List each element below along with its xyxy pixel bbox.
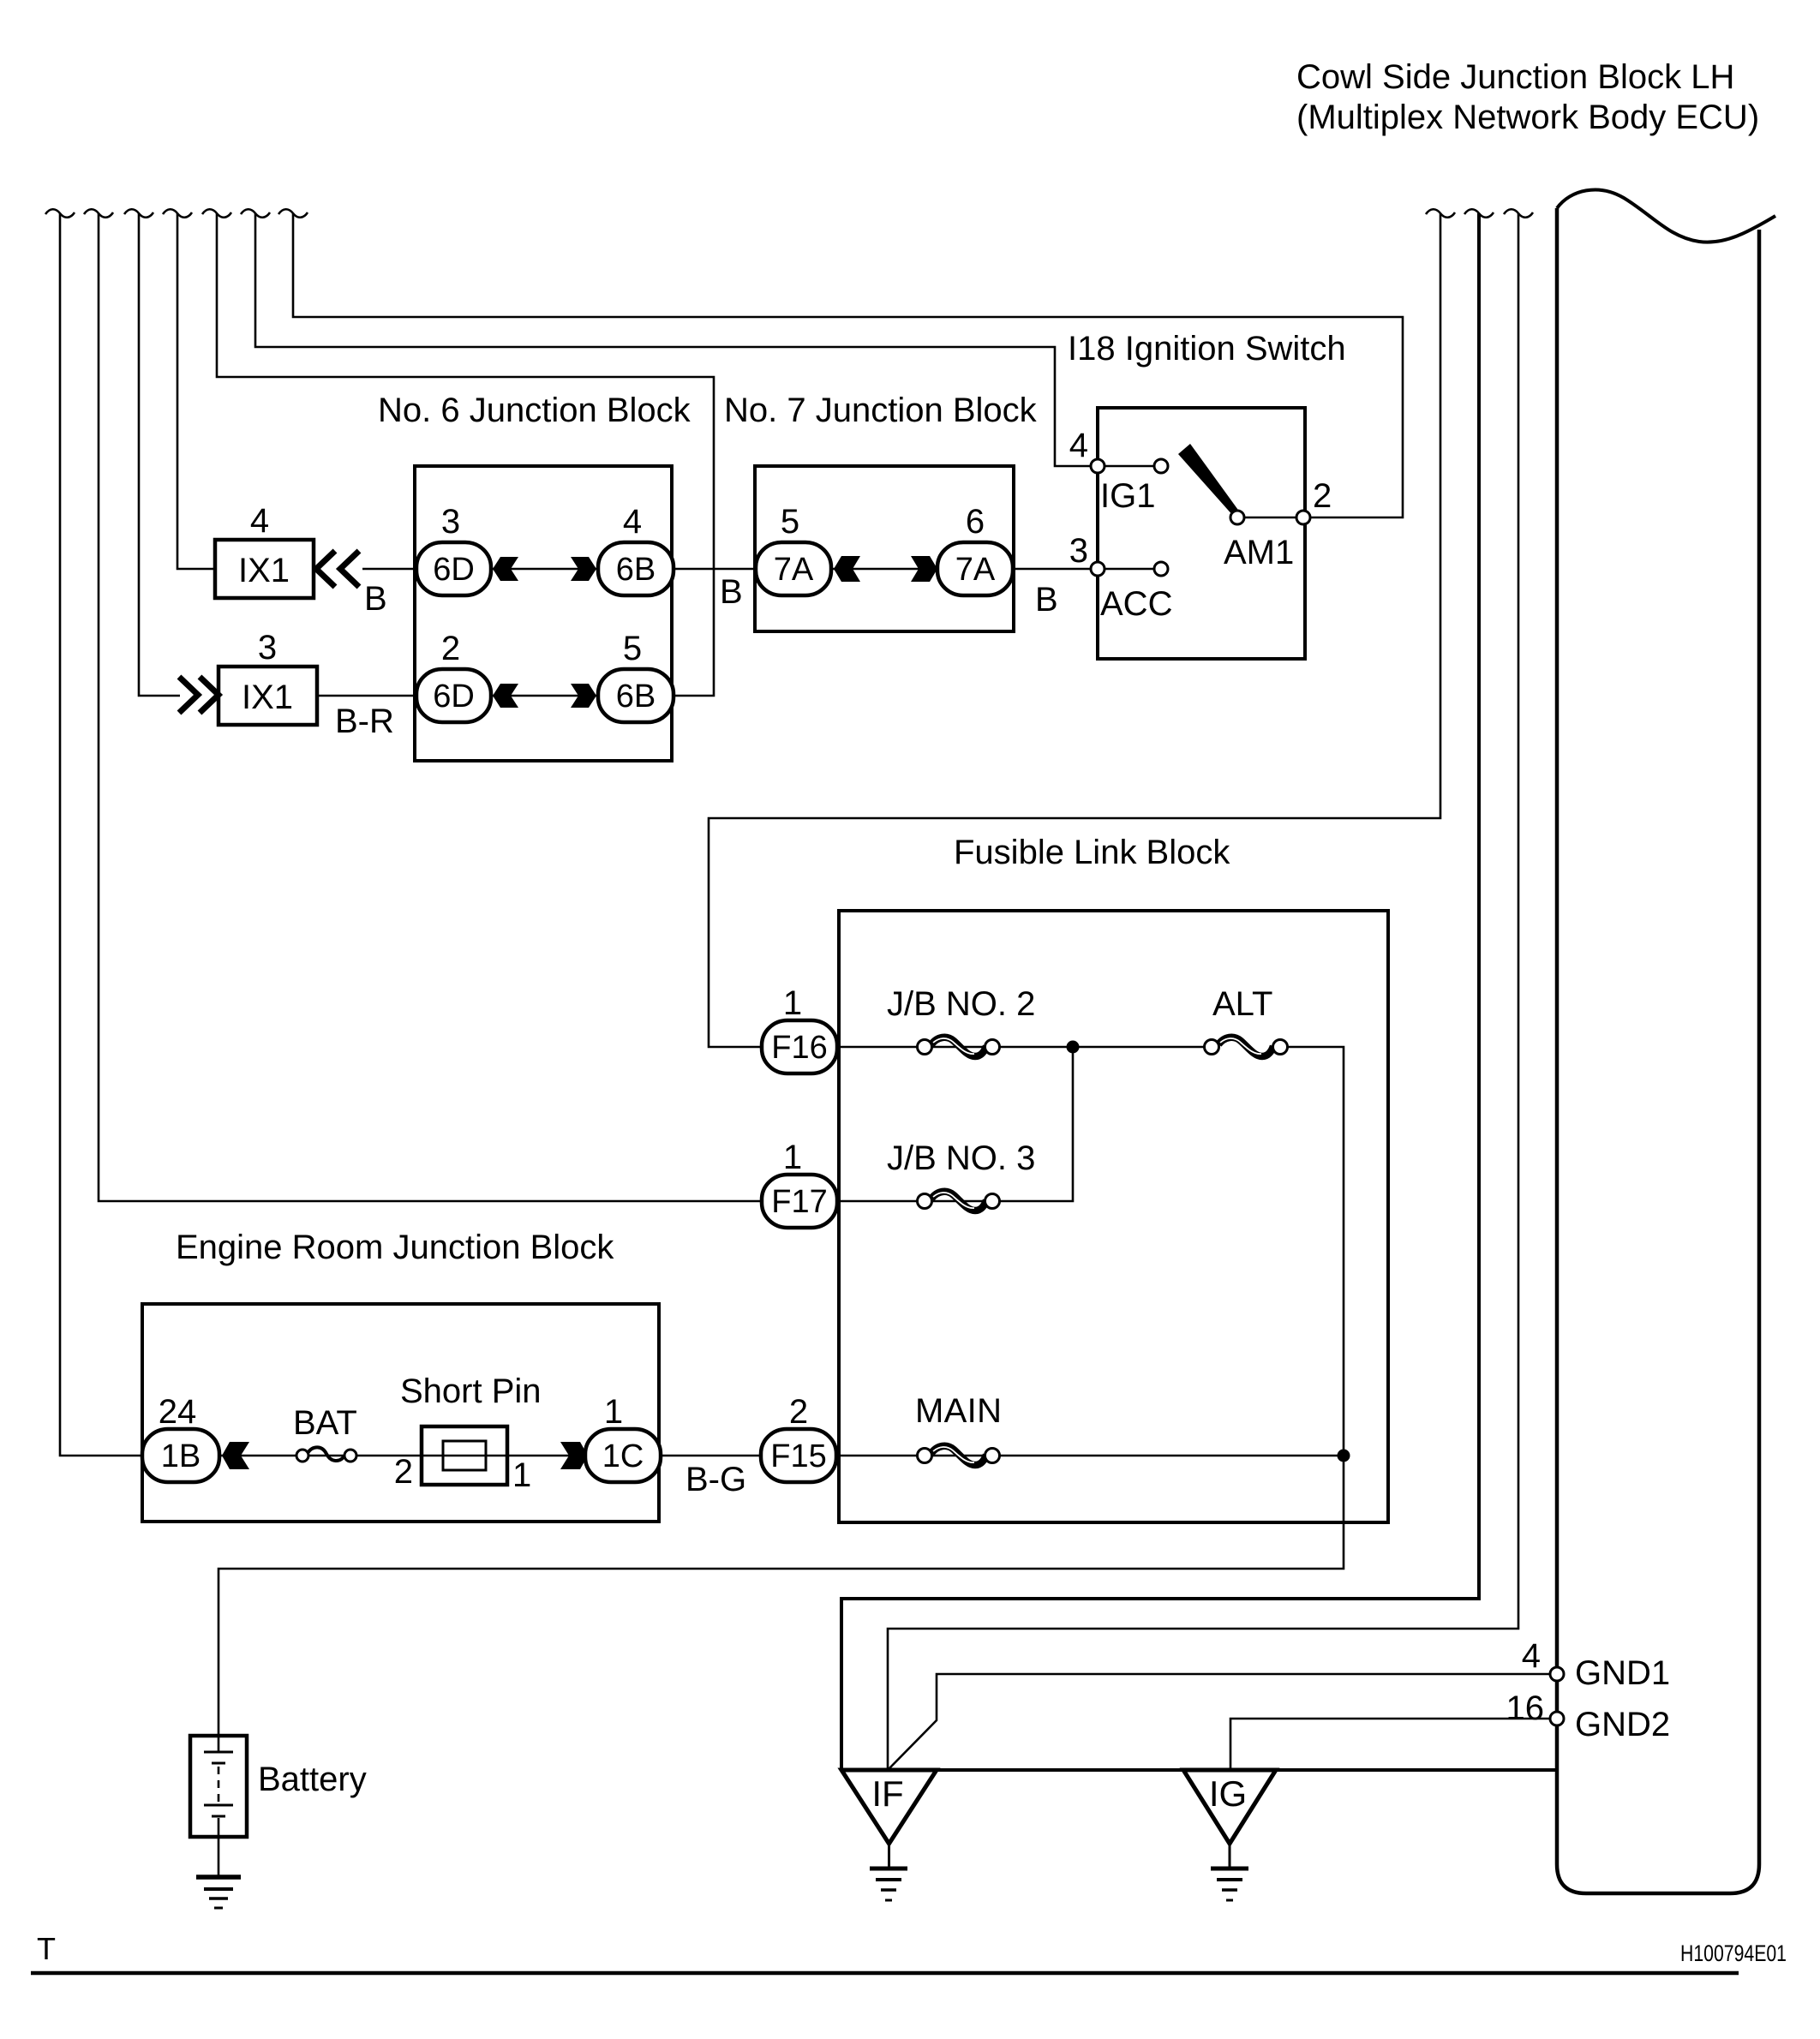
wire 6D-3 to 6B-4 with mating arrows — [491, 568, 600, 571]
svg-text:1B: 1B — [161, 1438, 201, 1474]
switch lever — [1178, 444, 1240, 517]
svg-text:F17: F17 — [771, 1184, 827, 1220]
svg-text:IX1: IX1 — [242, 679, 293, 716]
pin 2 terminal — [1296, 511, 1310, 524]
connector 7A pin 6 — [937, 503, 1013, 595]
fuse BAT — [293, 1404, 357, 1462]
wire F15 through MAIN fuse to junction — [836, 1455, 1344, 1457]
wire 6 from ECU (broken top) to ignition switch IG1 pin 4 — [241, 209, 1090, 466]
wire 6B-4 to 7A-5, label B — [674, 568, 756, 571]
junction node on MAIN row — [1338, 1450, 1350, 1462]
svg-text:1: 1 — [783, 1139, 802, 1176]
wire battery to ground — [218, 1837, 220, 1875]
ground at battery — [196, 1877, 241, 1908]
wire 1B row through BAT fuse and Short Pin to 1C — [219, 1455, 585, 1457]
svg-text:F15: F15 — [770, 1438, 826, 1474]
fusible link J/B NO. 2 — [887, 985, 1035, 1056]
wire 6D-2 to 6B-5 with mating arrows — [491, 695, 600, 697]
svg-text:4: 4 — [1069, 427, 1088, 464]
svg-text:ALT: ALT — [1212, 985, 1272, 1023]
svg-text:No. 7 Junction Block: No. 7 Junction Block — [724, 392, 1038, 429]
svg-text:IG1: IG1 — [1100, 477, 1155, 515]
fusible link J/B NO. 3 — [887, 1139, 1035, 1211]
AM1 pivot terminal — [1230, 511, 1244, 524]
connector F15 pin 2 — [761, 1393, 836, 1482]
connector 6D pin 2 — [416, 630, 491, 722]
svg-text:3: 3 — [441, 503, 460, 541]
svg-text:MAIN: MAIN — [915, 1392, 1002, 1430]
svg-text:Battery: Battery — [258, 1761, 367, 1798]
svg-text:1C: 1C — [602, 1438, 644, 1474]
wire pin4 to IG1 contact — [1105, 465, 1154, 468]
pin 16 GND2 terminal — [1550, 1712, 1564, 1725]
ground triangle IF — [841, 1770, 937, 1900]
wire 3 from ECU (broken top) down to IX1 pin 3 — [124, 209, 180, 696]
wire 7A-5 to 7A-6 with mating arrows — [831, 568, 937, 571]
No. 6 Junction Block box — [415, 466, 672, 761]
svg-text:3: 3 — [1069, 532, 1088, 570]
svg-text:(Multiplex Network Body ECU): (Multiplex Network Body ECU) — [1296, 99, 1759, 136]
pin 4 GND1 terminal — [1550, 1667, 1564, 1681]
svg-text:7A: 7A — [955, 552, 996, 588]
svg-text:BAT: BAT — [293, 1404, 357, 1442]
svg-text:16: 16 — [1506, 1689, 1545, 1727]
svg-text:IG: IG — [1209, 1773, 1247, 1814]
svg-text:IX1: IX1 — [238, 552, 290, 589]
wire A from ECU (broken top) down then left to F16 fusible link — [709, 209, 1455, 1047]
mating arrow at 1C — [560, 1442, 588, 1469]
battery — [190, 1736, 367, 1837]
connector IX1 pin 4 — [215, 502, 314, 598]
connector F17 pin 1 — [762, 1139, 837, 1228]
wire 1 from ECU pin (broken top) down to 1B terminal 24 — [45, 209, 142, 1456]
svg-text:GND1: GND1 — [1575, 1654, 1670, 1692]
connector 6B pin 5 — [598, 630, 674, 722]
chevron male connector at IX1 pin 3 — [179, 677, 219, 713]
svg-text:4: 4 — [623, 503, 642, 541]
wire GND1 from ECU pin 4 to ground bus — [888, 1674, 1550, 1770]
svg-text:B: B — [364, 580, 387, 618]
svg-text:2: 2 — [1313, 477, 1332, 515]
ground triangle IG — [1183, 1770, 1276, 1900]
bottom rule — [31, 1971, 1739, 1976]
wire IX1-3 to 6D pin 2, label B-R — [317, 695, 416, 697]
svg-text:6B: 6B — [616, 679, 656, 715]
wire 4 from ECU (broken top) down to IX1 pin 4 — [163, 209, 215, 569]
IG1 contact — [1154, 459, 1168, 473]
svg-text:I18 Ignition Switch: I18 Ignition Switch — [1068, 330, 1346, 368]
ignition switch I18 box — [1098, 408, 1305, 659]
pin 3 terminal — [1091, 562, 1105, 576]
wire F17 to J/B NO.3 fuse then up to junction — [837, 1047, 1073, 1201]
wire 2 from ECU (broken top) down to F17 fusible link — [84, 209, 762, 1201]
svg-text:1: 1 — [783, 984, 802, 1022]
svg-text:H100794E01: H100794E01 — [1680, 1940, 1787, 1966]
svg-text:2: 2 — [394, 1453, 413, 1491]
svg-text:J/B NO. 3: J/B NO. 3 — [887, 1139, 1035, 1177]
svg-text:IF: IF — [871, 1773, 903, 1814]
ACC contact — [1154, 562, 1168, 576]
junction node on J/B NO.2 row — [1067, 1041, 1080, 1054]
svg-text:No. 6 Junction Block: No. 6 Junction Block — [378, 392, 691, 429]
wire B thick from ECU (broken top) down to ground bus at IF — [841, 209, 1494, 1770]
svg-text:Engine Room Junction Block: Engine Room Junction Block — [176, 1229, 614, 1266]
svg-text:T: T — [37, 1931, 56, 1966]
wire AM1 pivot to pin 2 — [1244, 517, 1296, 519]
connector IX1 pin 3 — [219, 629, 317, 725]
svg-text:1: 1 — [512, 1456, 531, 1494]
chevron male connector at IX1 pin 4 — [316, 551, 359, 587]
connector F16 pin 1 — [762, 984, 837, 1073]
svg-text:Short Pin: Short Pin — [400, 1372, 542, 1410]
svg-text:2: 2 — [441, 630, 460, 667]
wire GND2 from ECU pin 16 to IG ground bus — [1230, 1719, 1550, 1770]
connector 6B pin 4 — [598, 503, 674, 595]
wire F16 to J/B NO.2 fuse to junction to ALT fuse — [837, 1046, 1205, 1049]
svg-text:B-G: B-G — [685, 1461, 746, 1498]
svg-text:Cowl Side Junction Block LH: Cowl Side Junction Block LH — [1296, 58, 1734, 96]
pin 4 terminal — [1091, 459, 1105, 473]
svg-text:6D: 6D — [433, 679, 475, 715]
fusible link MAIN — [915, 1392, 1002, 1465]
svg-text:3: 3 — [258, 629, 277, 667]
svg-text:6: 6 — [966, 503, 985, 541]
svg-text:6B: 6B — [616, 552, 656, 588]
svg-text:Fusible Link Block: Fusible Link Block — [954, 834, 1230, 871]
fusible link ALT — [1205, 985, 1288, 1056]
wire 5 from ECU (broken top) to 6B pin 5 — [202, 209, 714, 696]
svg-text:J/B NO. 2: J/B NO. 2 — [887, 985, 1035, 1023]
wire C from ECU (broken top) down to ground bus — [888, 209, 1533, 1770]
svg-text:24: 24 — [159, 1393, 197, 1431]
svg-text:5: 5 — [781, 503, 799, 541]
svg-text:1: 1 — [604, 1393, 623, 1431]
svg-text:AM1: AM1 — [1224, 534, 1294, 571]
connector 1C pin 1 — [585, 1393, 661, 1482]
svg-text:B-R: B-R — [335, 703, 394, 740]
svg-text:B: B — [720, 573, 743, 611]
mating arrow at 1B — [222, 1442, 249, 1469]
wire 1C to F15, label B-G — [661, 1455, 761, 1457]
wire 7 from ECU (broken top) to ignition switch AM1 pin 2 — [278, 209, 1403, 517]
svg-text:2: 2 — [789, 1393, 808, 1431]
ground bus bar to ECU — [841, 1768, 1555, 1772]
svg-text:7A: 7A — [774, 552, 814, 588]
wire pin3 to ACC contact — [1105, 568, 1154, 571]
wire 7A-6 to ignition switch ACC pin 3, label B — [1013, 568, 1091, 571]
svg-text:F16: F16 — [771, 1030, 827, 1066]
Fusible Link Block box — [839, 911, 1388, 1522]
svg-text:6D: 6D — [433, 552, 475, 588]
wire ALT fuse to MAIN junction — [1287, 1047, 1344, 1456]
svg-text:ACC: ACC — [1100, 585, 1172, 623]
Short Pin component — [394, 1372, 542, 1494]
connector 1B pin 24 — [142, 1393, 219, 1482]
wire chevron to 6D pin 3, label B — [362, 568, 416, 571]
svg-text:GND2: GND2 — [1575, 1706, 1670, 1743]
svg-text:4: 4 — [250, 502, 269, 540]
No. 7 Junction Block box — [755, 466, 1014, 631]
connector 6D pin 3 — [416, 503, 491, 595]
svg-text:B: B — [1035, 581, 1058, 619]
svg-text:4: 4 — [1522, 1637, 1541, 1675]
svg-text:5: 5 — [623, 630, 642, 667]
wire MAIN junction down and left to battery — [219, 1456, 1344, 1736]
Engine Room Junction Block box — [142, 1304, 659, 1522]
label Cowl Side Junction Block LH (Multiplex Network Body ECU) — [1296, 58, 1759, 136]
ECU cowl side junction block outline (rounded bottom, wavy top) — [1557, 190, 1775, 1893]
connector 7A pin 5 — [756, 503, 831, 595]
